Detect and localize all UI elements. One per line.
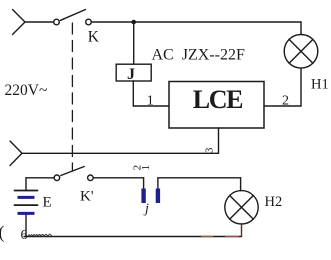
svg-text:2: 2 [282,94,289,109]
svg-text:3: 3 [204,148,215,153]
svg-text:AC JZX--22F: AC JZX--22F [152,47,245,64]
svg-text:6: 6 [21,228,28,243]
svg-text:LCE: LCE [193,85,243,114]
svg-text:1: 1 [147,94,154,109]
svg-text:(: ( [0,222,5,243]
svg-text:H1: H1 [311,77,329,93]
svg-text:K: K [88,28,100,45]
svg-text:1: 1 [140,165,152,171]
svg-text:J: J [127,66,135,83]
svg-text:j: j [143,202,149,217]
svg-text:H2: H2 [265,194,283,210]
svg-text:E: E [43,195,52,211]
svg-text:220V~: 220V~ [5,82,48,99]
svg-text:K': K' [80,189,94,205]
